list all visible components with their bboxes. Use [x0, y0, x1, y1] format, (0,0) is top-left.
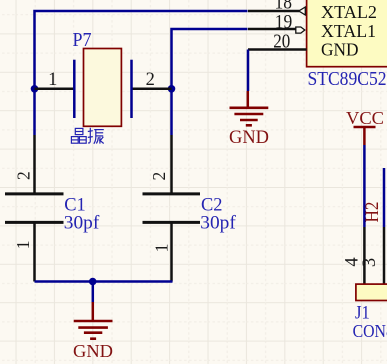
- capacitor C1 bottom lead: [33, 222, 36, 281]
- capacitor C2 top lead: [170, 135, 173, 194]
- svg-text:XTAL1: XTAL1: [321, 21, 376, 41]
- svg-text:19: 19: [275, 12, 293, 33]
- svg-text:1: 1: [13, 241, 33, 250]
- svg-text:XTAL2: XTAL2: [321, 2, 377, 22]
- chip U1 STC89C52 body: [307, 0, 387, 67]
- crystal P7 left electrode bar: [73, 60, 76, 118]
- crystal P7 comment label (jing zhen): [71, 128, 103, 144]
- junction node XTAL2 (crystal pin1 / C1): [31, 85, 39, 93]
- svg-text:1: 1: [48, 70, 57, 90]
- ground symbol GND (pin 20): [230, 91, 269, 125]
- capacitor C2 bottom plate: [143, 221, 201, 224]
- capacitor C2 bottom lead: [170, 222, 173, 281]
- pin 19 XTAL1: [248, 27, 305, 33]
- wire VCC to connector pin 4: [363, 145, 366, 227]
- junction node XTAL1 (crystal pin2 / C2): [168, 85, 176, 93]
- wire pin20 to ground: [247, 50, 250, 92]
- crystal P7 pin 1: [35, 88, 75, 91]
- capacitor C1 top plate: [5, 192, 64, 195]
- wire to connector pin 3: [383, 168, 386, 227]
- connector J1 pin 4: [363, 227, 366, 285]
- svg-text:CON8: CON8: [353, 321, 387, 341]
- capacitor C2 top plate: [143, 192, 201, 195]
- pin 20 GND: [248, 48, 307, 51]
- svg-text:H2: H2: [363, 202, 383, 223]
- svg-text:3: 3: [360, 258, 380, 267]
- svg-text:20: 20: [273, 31, 290, 52]
- svg-text:C1: C1: [64, 195, 86, 215]
- svg-text:GND: GND: [321, 39, 359, 59]
- wire junction to ground symbol: [92, 282, 95, 303]
- crystal P7 pin 2: [132, 88, 172, 91]
- junction node bottom GND: [89, 278, 97, 286]
- connector J1 body: [356, 284, 387, 300]
- crystal P7 right electrode bar: [130, 60, 133, 118]
- svg-text:VCC: VCC: [346, 108, 384, 128]
- power symbol VCC: [354, 127, 376, 145]
- connector J1 pin 3: [383, 227, 386, 285]
- svg-text:2: 2: [146, 70, 155, 90]
- svg-text:GND: GND: [73, 341, 113, 361]
- svg-text:GND: GND: [229, 128, 269, 148]
- wire net XTAL2: top wire from crystal pin1 to chip pin 18: [35, 11, 248, 135]
- capacitor C1 bottom plate: [5, 221, 64, 224]
- svg-text:STC89C52: STC89C52: [308, 68, 387, 90]
- wire bottom net GND: [35, 280, 173, 283]
- svg-text:2: 2: [14, 171, 34, 180]
- pin 18 XTAL2: [248, 7, 305, 15]
- wire net XTAL1: wire from crystal pin2 to chip pin 19: [172, 29, 248, 135]
- svg-text:2: 2: [149, 172, 169, 181]
- capacitor C1 top lead: [33, 135, 36, 194]
- svg-text:C2: C2: [201, 195, 223, 215]
- svg-text:1: 1: [152, 244, 172, 253]
- crystal P7 body: [84, 49, 122, 127]
- ground symbol GND (bottom): [74, 302, 113, 339]
- svg-text:30pf: 30pf: [200, 214, 236, 234]
- svg-text:30pf: 30pf: [64, 213, 100, 233]
